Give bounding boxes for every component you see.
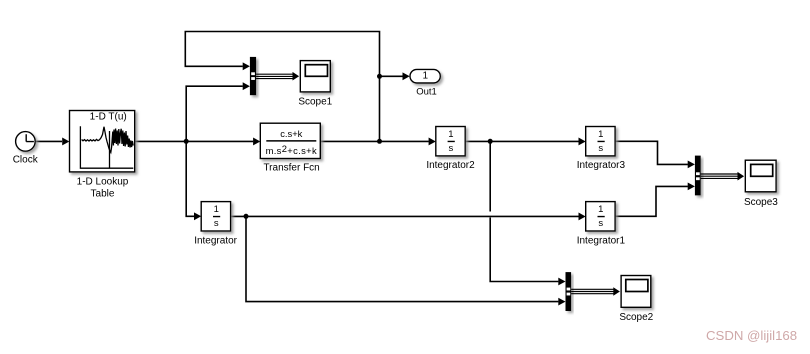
svg-text:Transfer Fcn: Transfer Fcn: [263, 163, 319, 174]
wire Transfer Fcn to Integrator2: [320, 138, 436, 146]
svg-text:1: 1: [598, 129, 603, 140]
wire Transfer Fcn feedback loop to Mux input 1: [185, 32, 379, 142]
block Scope1: [298, 61, 332, 108]
svg-text:m.s2+c.s+k: m.s2+c.s+k: [266, 143, 317, 156]
svg-text:Integrator2: Integrator2: [426, 160, 475, 171]
block Integrator1: [577, 202, 626, 247]
node out1 branch junction: [377, 74, 382, 79]
svg-text:s: s: [598, 218, 603, 229]
block Integrator3: [577, 127, 626, 172]
wire Integrator2 to Integrator3: [465, 138, 586, 146]
svg-text:Scope1: Scope1: [298, 96, 332, 107]
block 1-D Lookup Table: [70, 111, 135, 200]
block Transfer Fcn: [260, 123, 320, 173]
wire branch to Out1: [380, 72, 410, 80]
wire Lookup output to Transfer Fcn: [135, 138, 261, 146]
svg-text:Integrator1: Integrator1: [577, 236, 626, 247]
wire Integrator branch down to Scope2 mux input 2: [246, 216, 566, 305]
node lookup-output junction: [184, 139, 189, 144]
svg-text:1: 1: [598, 204, 603, 215]
wire Integrator3 to Scope3 mux input 1: [615, 141, 695, 168]
block Scope2: [619, 276, 653, 323]
svg-text:Scope2: Scope2: [619, 312, 653, 323]
svg-text:1: 1: [448, 129, 453, 140]
block Scope3: [744, 160, 778, 208]
svg-text:1: 1: [423, 71, 429, 82]
node transfer-fcn-output junction: [377, 139, 382, 144]
wire Clock to Lookup: [35, 138, 69, 146]
wire Integrator2 branch down to Scope2 mux input 1: [490, 141, 565, 285]
svg-text:Table: Table: [91, 189, 115, 200]
wire lookup branch up to Mux input 2: [186, 82, 250, 141]
svg-text:s: s: [449, 143, 454, 154]
svg-text:1-D T(u): 1-D T(u): [90, 111, 127, 122]
block Integrator2: [426, 127, 475, 172]
watermark CSDN: [706, 328, 797, 343]
svg-text:Out1: Out1: [416, 87, 437, 98]
mux Mux2 (Scope2): [566, 272, 572, 311]
svg-text:1-D Lookup: 1-D Lookup: [77, 177, 129, 188]
svg-text:s: s: [598, 143, 603, 154]
wire wide Mux3 to Scope3: [696, 172, 744, 181]
node integrator2-output junction: [488, 139, 493, 144]
svg-text:Scope3: Scope3: [744, 197, 778, 208]
mux Mux3 (Scope3): [695, 156, 701, 196]
wire wide Mux1 to Scope1: [251, 72, 299, 81]
svg-text:CSDN @lijil168: CSDN @lijil168: [706, 328, 797, 343]
svg-text:1: 1: [214, 204, 219, 215]
node integrator-output junction: [244, 214, 249, 219]
block Clock: [13, 132, 39, 166]
svg-text:Integrator3: Integrator3: [577, 160, 626, 171]
wire wide Mux2 to Scope2: [567, 287, 620, 296]
wire Integrator to Integrator1: [231, 213, 586, 221]
mux Mux1 (Scope1): [250, 57, 256, 95]
svg-text:c.s+k: c.s+k: [280, 128, 302, 139]
wire lookup branch down to Integrator: [186, 141, 201, 220]
wire Integrator1 to Scope3 mux input 2: [615, 183, 695, 217]
svg-text:s: s: [214, 218, 219, 229]
block Out1: [410, 69, 440, 97]
block Integrator: [194, 202, 237, 247]
svg-text:Clock: Clock: [13, 154, 39, 165]
svg-text:Integrator: Integrator: [194, 236, 237, 247]
